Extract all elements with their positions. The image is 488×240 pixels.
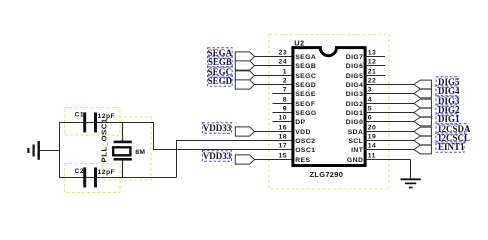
svg-text:11: 11 [368, 152, 376, 159]
pin 8 SEGF [283, 96, 316, 108]
svg-text:18: 18 [279, 133, 287, 140]
svg-text:DIG6: DIG6 [346, 63, 364, 70]
svg-text:DIG4: DIG4 [438, 86, 460, 96]
svg-text:DIG1: DIG1 [346, 110, 364, 117]
ground (left) [28, 141, 59, 160]
net label I2CSDA [436, 124, 471, 135]
svg-text:C1: C1 [75, 111, 85, 118]
svg-text:ZLG7290: ZLG7290 [310, 170, 344, 179]
wire OSC1 vertical [153, 122, 155, 150]
svg-text:17: 17 [279, 142, 287, 149]
selection box around crystal [103, 117, 151, 180]
net label SEGC [208, 67, 233, 78]
ground (bottom right) [401, 179, 421, 187]
net label DIG4 [436, 86, 460, 97]
svg-text:23: 23 [279, 49, 287, 56]
svg-text:DIG2: DIG2 [346, 101, 364, 108]
wire crystal top lead [122, 122, 124, 142]
pin stub left row5 [273, 93, 293, 95]
wire pin to port DIG3 [365, 103, 414, 105]
wire left vertical [59, 122, 61, 178]
selection box around C1 [65, 108, 121, 136]
svg-text:9: 9 [283, 105, 287, 112]
pin stub left row6 [273, 103, 293, 105]
svg-text:EINT1: EINT1 [438, 142, 465, 152]
port DIG1 [414, 117, 432, 126]
svg-text:10: 10 [279, 114, 287, 121]
svg-text:OSC2: OSC2 [295, 138, 315, 145]
net label SEGB [208, 57, 233, 68]
pin stub right row3 [365, 75, 385, 77]
wire crystal bottom lead [122, 160, 124, 178]
svg-text:SCL: SCL [348, 138, 363, 145]
svg-text:OSC1: OSC1 [295, 147, 315, 154]
pin 24 SEGB [279, 58, 317, 70]
wire pin to port DIG2 [365, 112, 414, 114]
selection box around U2 area [269, 35, 389, 190]
port DIG2 [414, 108, 432, 117]
svg-text:4: 4 [368, 96, 372, 103]
svg-text:DIG4: DIG4 [346, 82, 364, 89]
svg-text:15: 15 [279, 152, 287, 159]
op IC U2 ZLG7290 body [293, 48, 365, 166]
pin 4 DIG2 [346, 96, 372, 108]
svg-text:21: 21 [368, 68, 376, 75]
svg-text:VDD33: VDD33 [203, 123, 232, 133]
svg-text:DIG0: DIG0 [346, 119, 364, 126]
pin 14 INT [351, 142, 376, 154]
svg-text:SEGE: SEGE [295, 91, 316, 98]
svg-text:SEGC: SEGC [295, 73, 316, 80]
net label SEGA [208, 48, 233, 59]
wire GND vertical [410, 160, 412, 179]
port DIG3 [414, 99, 432, 108]
svg-text:SEGD: SEGD [295, 82, 316, 89]
svg-text:GND: GND [347, 157, 363, 164]
svg-text:13: 13 [368, 49, 376, 56]
pin 22 DIG4 [346, 77, 377, 89]
svg-text:2: 2 [283, 77, 287, 84]
svg-text:14: 14 [368, 142, 376, 149]
crystal OSC1 8M [100, 118, 146, 162]
svg-text:1: 1 [283, 68, 287, 75]
svg-text:DIG5: DIG5 [346, 73, 364, 80]
port SEGA [235, 52, 254, 61]
port I2CSDA [414, 127, 432, 136]
wire pin to port DIG4 [365, 93, 414, 95]
port VDD33 [235, 155, 254, 164]
wire SEGB to pin [255, 65, 293, 67]
pin stub right row1 [365, 56, 385, 58]
svg-text:DIG3: DIG3 [346, 91, 364, 98]
svg-text:SEGF: SEGF [295, 101, 315, 108]
svg-text:20: 20 [368, 124, 376, 131]
svg-text:SEGG: SEGG [295, 110, 316, 117]
pin 1 SEGC [283, 68, 316, 80]
net label SEGD [208, 76, 233, 87]
wire pin to port DIG1 [365, 121, 414, 123]
wire pin to port I2CSCL [365, 140, 414, 142]
pin 5 DIG1 [346, 105, 372, 117]
svg-text:7: 7 [283, 86, 287, 93]
port SEGB [235, 61, 254, 70]
net label DIG2 [436, 105, 460, 116]
wire OSC2 to chip [176, 140, 293, 142]
pin 13 DIG7 [346, 49, 377, 61]
svg-text:SEGB: SEGB [295, 63, 316, 70]
pin 23 SEGA [279, 49, 317, 61]
net label VDD33 [202, 123, 231, 134]
wire OSC1 to chip [153, 149, 293, 151]
svg-text:DP: DP [295, 119, 305, 126]
svg-text:RES: RES [295, 157, 310, 164]
port EINT1 [414, 145, 432, 154]
svg-text:3: 3 [368, 86, 372, 93]
wire GND horizontal [365, 159, 411, 161]
net label DIG5 [436, 77, 460, 88]
svg-text:C2: C2 [75, 168, 85, 175]
pin stub left row8 [273, 121, 293, 123]
wire pin to port I2CSDA [365, 131, 414, 133]
svg-text:16: 16 [279, 124, 287, 131]
svg-text:12pF: 12pF [98, 169, 116, 176]
net label DIG3 [436, 96, 460, 107]
wire pin to port EINT1 [365, 149, 414, 151]
pin 18 OSC2 [279, 133, 316, 145]
pin 17 OSC1 [279, 142, 316, 154]
wire SEGD to pin [255, 84, 293, 86]
svg-text:24: 24 [279, 58, 287, 65]
capacitor C2 [75, 167, 116, 187]
port VDD33 [235, 127, 254, 136]
pin stub right row2 [365, 65, 385, 67]
wire C2 row [59, 177, 177, 179]
port SEGD [235, 80, 254, 89]
wire pin to port DIG5 [365, 84, 414, 86]
pin 19 SCL [348, 133, 376, 145]
port SEGC [235, 71, 254, 80]
svg-text:8M: 8M [135, 149, 145, 156]
svg-text:5: 5 [368, 105, 372, 112]
port I2CSCL [414, 136, 432, 145]
svg-text:22: 22 [368, 77, 376, 84]
net label I2CSCL [436, 133, 470, 144]
svg-text:INT: INT [351, 147, 364, 154]
pin 11 GND [347, 152, 376, 164]
wire VDD33 to pin [255, 159, 293, 161]
svg-text:SEGB: SEGB [208, 57, 232, 67]
wire VDD33 to pin [255, 131, 293, 133]
svg-text:SEGD: SEGD [208, 76, 233, 86]
net label VDD33 [202, 151, 231, 162]
port DIG5 [414, 80, 432, 89]
wire SEGA to pin [255, 56, 293, 58]
svg-text:8: 8 [283, 96, 287, 103]
pin 7 SEGE [283, 86, 316, 98]
pin 20 SDA [348, 124, 377, 136]
pin 16 VDD [279, 124, 311, 136]
wire SEGC to pin [255, 75, 293, 77]
svg-text:SEGA: SEGA [295, 54, 316, 61]
pin 9 SEGG [283, 105, 317, 117]
svg-text:PLL_OSC1: PLL_OSC1 [100, 118, 109, 162]
net label DIG1 [436, 114, 460, 125]
svg-text:SDA: SDA [348, 129, 364, 136]
pin 21 DIG5 [346, 68, 377, 80]
svg-text:U2: U2 [294, 38, 304, 47]
pin 6 DIG0 [346, 114, 372, 126]
pin 12 DIG6 [346, 58, 377, 70]
pin 10 DP [279, 114, 306, 126]
net label EINT1 [436, 142, 465, 153]
selection box around C2 [65, 164, 121, 193]
port DIG4 [414, 89, 432, 98]
svg-text:VDD33: VDD33 [203, 151, 232, 161]
wire C1 row [59, 122, 154, 124]
svg-text:12: 12 [368, 58, 376, 65]
svg-text:DIG1: DIG1 [438, 114, 460, 124]
pin 3 DIG3 [346, 86, 372, 98]
pin stub left row7 [273, 112, 293, 114]
pin 15 RES [279, 152, 311, 164]
svg-text:VDD: VDD [295, 129, 311, 136]
capacitor C1 [75, 111, 116, 132]
wire OSC2 vertical [176, 141, 178, 178]
svg-text:DIG7: DIG7 [346, 54, 364, 61]
pin 2 SEGD [283, 77, 316, 89]
svg-text:6: 6 [368, 114, 372, 121]
svg-text:19: 19 [368, 133, 376, 140]
